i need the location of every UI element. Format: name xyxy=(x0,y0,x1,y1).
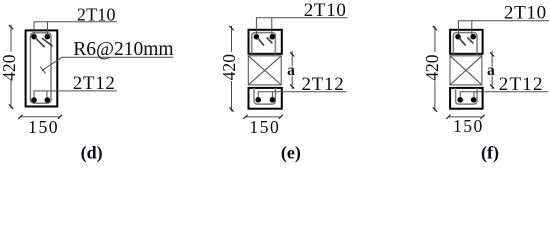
bottom bar right (e) xyxy=(270,97,276,103)
svg-text:(d): (d) xyxy=(81,143,103,164)
leader 2T10 (d) xyxy=(34,22,117,36)
hook left (d) xyxy=(35,38,45,48)
svg-text:150: 150 xyxy=(28,117,59,137)
bottom stirrup (f) xyxy=(456,88,477,104)
svg-text:150: 150 xyxy=(453,116,484,136)
dimension 420 top tick (e) xyxy=(229,26,233,30)
dimension a bottom tick (e) xyxy=(290,84,294,88)
bottom stirrup (e) xyxy=(254,88,275,104)
svg-text:R6@210mm: R6@210mm xyxy=(73,39,173,60)
svg-text:2T10: 2T10 xyxy=(504,3,547,24)
X diagonals (f) xyxy=(450,56,482,85)
svg-text:(e): (e) xyxy=(281,143,301,164)
dimension 150 left tick (f) xyxy=(446,115,450,119)
X-box (e) xyxy=(248,56,281,85)
hook right (f) xyxy=(467,37,473,43)
dimension 150 right tick (f) xyxy=(480,115,484,119)
dimension a line (e) xyxy=(291,51,293,90)
top stirrup (f) xyxy=(453,33,477,54)
leader R6@210mm (d) xyxy=(42,57,174,70)
dimension 150 line (e) xyxy=(245,116,280,118)
dimension 150 line (d) xyxy=(20,116,60,118)
top block (e) xyxy=(249,30,282,54)
dimension 420 top tick (f) xyxy=(433,26,437,30)
dimension 150 right tick (d) xyxy=(58,115,62,119)
leader 2T10 (e) xyxy=(256,18,347,35)
tick on R6 leader (d) xyxy=(40,67,45,74)
beam outline (d) xyxy=(26,30,58,106)
dimension 150 right tick (e) xyxy=(279,115,283,119)
svg-text:420: 420 xyxy=(422,54,442,81)
dimension 150 left tick (d) xyxy=(18,115,22,119)
top bar left (d) xyxy=(31,34,37,40)
top bar right (d) xyxy=(45,34,51,40)
leader 2T12 (d) xyxy=(34,91,117,98)
bottom bar left (d) xyxy=(31,97,37,103)
dimension 420 top tick (d) xyxy=(9,25,13,29)
dimension 150 line (f) xyxy=(448,116,482,118)
dimension 420 bottom tick (f) xyxy=(433,107,437,111)
svg-text:2T10: 2T10 xyxy=(77,5,116,25)
top bar right (e) xyxy=(270,34,276,40)
svg-text:420: 420 xyxy=(219,54,239,81)
svg-text:2T10: 2T10 xyxy=(304,0,347,21)
hook right (d) xyxy=(42,38,53,46)
svg-text:2T12: 2T12 xyxy=(302,74,345,95)
leader 2T10 (f) xyxy=(458,21,549,36)
bottom bar left (e) xyxy=(255,97,261,103)
dimension a line (f) xyxy=(491,51,493,90)
bottom block (e) xyxy=(249,88,282,109)
stirrup (d) xyxy=(30,33,51,104)
top bar left (f) xyxy=(455,34,461,40)
svg-text:2T12: 2T12 xyxy=(499,74,544,95)
top bar right (f) xyxy=(470,34,476,40)
hook right (e) xyxy=(267,37,273,43)
dimension a top tick (e) xyxy=(290,52,294,56)
hook left (e) xyxy=(258,38,264,46)
top stirrup (e) xyxy=(252,33,276,54)
top bar left (e) xyxy=(254,34,260,40)
bottom bar right (d) xyxy=(45,97,51,103)
dimension 420 line (e) xyxy=(231,26,233,112)
svg-text:a: a xyxy=(287,62,295,79)
dimension a top tick (f) xyxy=(490,52,494,56)
dimension 420 bottom tick (d) xyxy=(9,104,13,108)
bottom bar left (f) xyxy=(457,97,463,103)
svg-text:150: 150 xyxy=(249,117,280,137)
svg-text:(f): (f) xyxy=(481,143,499,164)
svg-text:2T12: 2T12 xyxy=(73,73,116,94)
leader 2T12 (e) xyxy=(258,92,346,98)
bottom block (f) xyxy=(450,88,483,109)
X diagonals (e) xyxy=(248,56,281,85)
X-box (f) xyxy=(450,56,482,85)
dimension 420 line (f) xyxy=(434,26,436,112)
dimension 420 line (d) xyxy=(10,25,12,109)
hook left (f) xyxy=(459,38,465,46)
top block (f) xyxy=(450,30,483,54)
leader 2T12 (f) xyxy=(460,92,548,98)
svg-text:a: a xyxy=(487,62,495,79)
svg-text:420: 420 xyxy=(0,54,19,81)
dimension 420 bottom tick (e) xyxy=(229,107,233,111)
bottom bar right (f) xyxy=(471,97,477,103)
dimension 150 left tick (e) xyxy=(243,115,247,119)
dimension a bottom tick (f) xyxy=(490,84,494,88)
